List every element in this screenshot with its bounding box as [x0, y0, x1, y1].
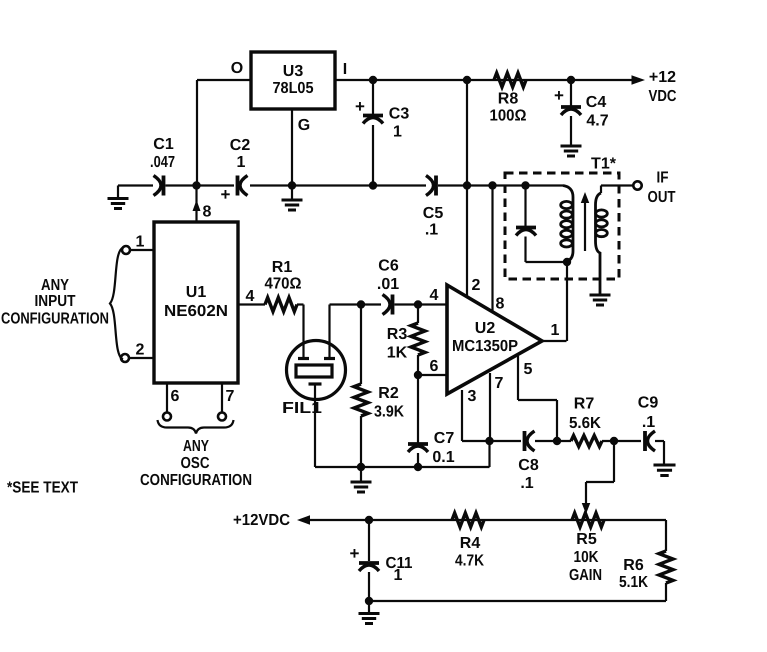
svg-text:MC1350P: MC1350P [452, 338, 518, 355]
svg-text:C8: C8 [518, 457, 539, 474]
svg-text:4: 4 [430, 287, 439, 304]
svg-text:*SEE TEXT: *SEE TEXT [7, 480, 78, 497]
svg-text:I: I [343, 61, 347, 78]
svg-text:U3: U3 [283, 63, 304, 80]
svg-text:+12VDC: +12VDC [233, 512, 290, 529]
svg-text:R7: R7 [574, 396, 595, 413]
svg-text:C4: C4 [586, 94, 607, 111]
svg-text:4.7K: 4.7K [455, 553, 484, 570]
svg-text:+: + [350, 544, 360, 563]
svg-text:CONFIGURATION: CONFIGURATION [1, 311, 109, 328]
svg-text:R4: R4 [460, 535, 481, 552]
svg-text:.1: .1 [520, 475, 533, 492]
svg-text:5.1K: 5.1K [619, 574, 648, 591]
svg-text:OSC: OSC [181, 455, 210, 472]
svg-text:0.1: 0.1 [432, 449, 454, 466]
svg-text:7: 7 [226, 388, 235, 405]
svg-text:+: + [221, 185, 231, 204]
svg-text:1: 1 [393, 124, 402, 141]
svg-text:2: 2 [472, 277, 481, 294]
svg-text:.01: .01 [377, 276, 399, 293]
svg-text:3: 3 [468, 388, 477, 405]
svg-text:8: 8 [203, 204, 212, 221]
svg-text:C9: C9 [638, 395, 659, 412]
svg-text:6: 6 [171, 388, 180, 405]
svg-text:R2: R2 [378, 385, 399, 402]
svg-text:.1: .1 [642, 414, 655, 431]
svg-text:ANY: ANY [41, 277, 69, 294]
svg-text:R3: R3 [387, 326, 408, 343]
svg-text:1: 1 [237, 154, 246, 171]
svg-text:+: + [554, 86, 564, 105]
svg-text:10K: 10K [574, 549, 599, 566]
svg-text:.1: .1 [425, 222, 438, 239]
svg-text:C1: C1 [153, 136, 174, 153]
svg-text:1: 1 [394, 567, 403, 584]
svg-text:CONFIGURATION: CONFIGURATION [140, 472, 252, 489]
svg-text:8: 8 [496, 296, 505, 313]
svg-text:C2: C2 [230, 137, 251, 154]
svg-text:+: + [355, 97, 365, 116]
svg-text:C3: C3 [389, 106, 410, 123]
svg-text:R1: R1 [272, 259, 293, 276]
svg-text:FIL1: FIL1 [282, 400, 322, 417]
svg-text:5.6K: 5.6K [569, 415, 601, 432]
svg-text:VDC: VDC [649, 88, 677, 105]
svg-text:.047: .047 [150, 154, 175, 171]
svg-text:6: 6 [430, 358, 439, 375]
svg-text:C6: C6 [378, 258, 399, 275]
svg-text:100Ω: 100Ω [490, 108, 527, 125]
svg-text:1: 1 [136, 234, 145, 251]
svg-text:O: O [231, 60, 243, 77]
svg-text:R5: R5 [576, 531, 597, 548]
svg-text:OUT: OUT [648, 189, 676, 206]
svg-text:U2: U2 [475, 320, 496, 337]
svg-text:R8: R8 [498, 91, 519, 108]
svg-text:C5: C5 [423, 205, 444, 222]
svg-text:GAIN: GAIN [569, 567, 602, 584]
svg-text:NE602N: NE602N [164, 303, 228, 320]
svg-text:1K: 1K [387, 345, 408, 362]
svg-text:U1: U1 [186, 284, 207, 301]
svg-text:4.7: 4.7 [586, 113, 608, 130]
svg-text:ANY: ANY [183, 438, 209, 455]
svg-text:IF: IF [657, 170, 669, 187]
svg-text:3.9K: 3.9K [374, 404, 404, 421]
svg-text:G: G [298, 117, 310, 134]
svg-text:78L05: 78L05 [273, 80, 314, 97]
svg-text:1: 1 [551, 322, 560, 339]
svg-text:5: 5 [524, 361, 533, 378]
svg-text:7: 7 [495, 375, 504, 392]
svg-text:+12: +12 [649, 69, 676, 86]
svg-text:470Ω: 470Ω [265, 276, 302, 293]
svg-text:R6: R6 [623, 557, 644, 574]
svg-text:T1*: T1* [591, 156, 617, 173]
svg-text:4: 4 [246, 288, 255, 305]
svg-text:2: 2 [136, 342, 145, 359]
svg-text:INPUT: INPUT [35, 293, 76, 310]
svg-text:C7: C7 [434, 430, 455, 447]
